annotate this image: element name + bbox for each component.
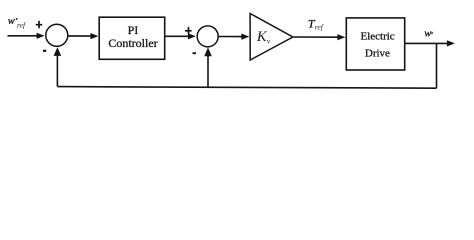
svg-text:ref: ref: [17, 20, 26, 29]
svg-text:w: w: [424, 29, 431, 40]
svg-text:w: w: [8, 16, 15, 27]
svg-text:Controller: Controller: [108, 36, 157, 50]
svg-text:ref: ref: [315, 22, 324, 31]
svg-text:Drive: Drive: [365, 48, 390, 60]
svg-text:Electric: Electric: [360, 30, 394, 42]
svg-text:PI: PI: [128, 23, 139, 37]
